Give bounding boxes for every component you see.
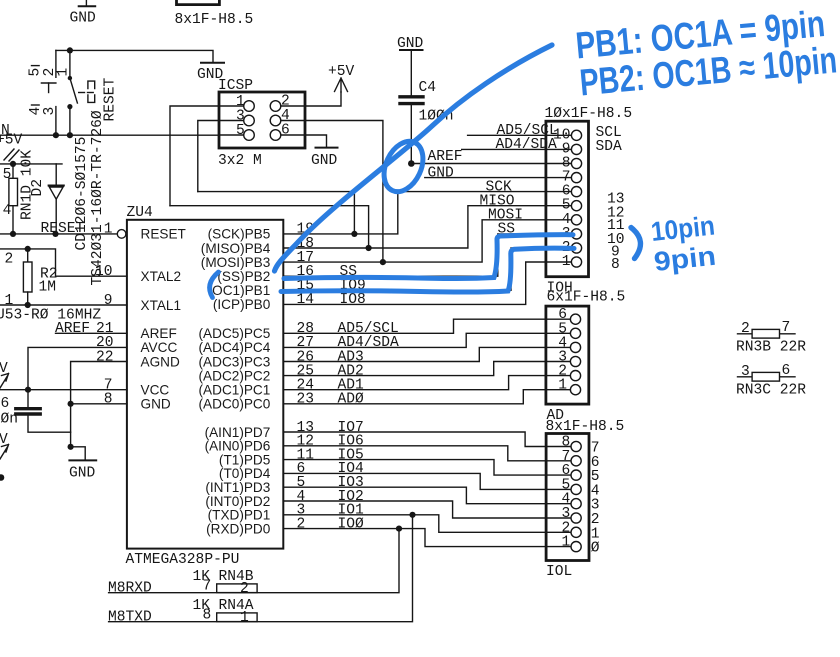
wire M8TXD net <box>109 515 413 622</box>
wire SDA to header pin9 <box>462 148 546 150</box>
svg-text:14: 14 <box>297 292 315 308</box>
wire SCK net <box>198 192 546 234</box>
svg-text:6: 6 <box>281 122 290 138</box>
junction switch top <box>67 47 73 53</box>
svg-text:(INT1)PD3: (INT1)PD3 <box>205 480 270 495</box>
svg-text:(TXD)PD1: (TXD)PD1 <box>208 508 271 523</box>
svg-text:IOØ: IOØ <box>338 516 365 532</box>
svg-text:1: 1 <box>55 68 71 77</box>
svg-text:TS42Ø31-16ØR-TR-726Ø: TS42Ø31-16ØR-TR-726Ø <box>90 110 106 285</box>
svg-text:(OC1)PB1: (OC1)PB1 <box>208 283 271 298</box>
wire XTAL2 pin10 <box>0 249 127 276</box>
svg-text:1: 1 <box>104 222 113 238</box>
wire AD3 net <box>283 347 546 361</box>
svg-text:(ADC5)PC5: (ADC5)PC5 <box>199 326 271 341</box>
svg-text:RESET: RESET <box>141 227 186 242</box>
svg-text:IOL: IOL <box>546 564 572 580</box>
svg-text:AREF: AREF <box>141 326 177 341</box>
svg-text:AREF: AREF <box>428 149 463 165</box>
wire SS net <box>283 234 546 276</box>
svg-text:ATMEGA328P-PU: ATMEGA328P-PU <box>126 552 240 568</box>
wire AD2 net <box>283 362 546 376</box>
diode D2 <box>49 164 64 234</box>
wire AD0 net <box>283 390 546 404</box>
svg-text:GND: GND <box>70 11 97 27</box>
svg-text:GND: GND <box>428 165 455 181</box>
wire ICSP pin1 MISO left-down <box>170 106 219 206</box>
svg-text:ADØ: ADØ <box>338 392 365 408</box>
wire ICSP pin6 to GND <box>305 135 327 147</box>
wire SCL to header pin10 <box>468 134 546 136</box>
svg-text:(MISO)PB4: (MISO)PB4 <box>201 241 271 256</box>
wire IO3 net <box>283 487 546 504</box>
wire GND to header pin7 <box>425 177 546 179</box>
svg-text:(ADC0)PC0: (ADC0)PC0 <box>199 397 271 412</box>
ground top-left <box>79 0 96 6</box>
svg-text:1: 1 <box>562 254 571 270</box>
svg-text:10: 10 <box>95 264 113 280</box>
pin numbers IOH <box>553 127 571 270</box>
svg-text:2: 2 <box>5 252 14 268</box>
svg-text:(SCK)PB5: (SCK)PB5 <box>208 227 271 242</box>
header 8x1F corner (cut at top) <box>177 0 220 5</box>
wire PB1/IO9 net <box>283 248 546 290</box>
supply +5V arrow fragment (cut) <box>0 374 9 389</box>
IC left pin numbers <box>95 222 114 408</box>
annotation blue wire PB2 to pin3 <box>284 235 573 279</box>
wire RESET row y=233.9 <box>0 233 117 235</box>
resistor RN3C 22R <box>738 372 796 381</box>
svg-text:8: 8 <box>611 257 620 273</box>
svg-text:2: 2 <box>240 581 249 597</box>
wire IO6 net <box>283 446 546 461</box>
supply +5V arrow at ICSP <box>335 78 348 92</box>
labels arduino pins 7..0 <box>591 441 600 557</box>
wire IO2 net <box>283 501 546 518</box>
svg-text:6: 6 <box>1 396 10 412</box>
wire IO0 net <box>283 529 546 547</box>
svg-text:6x1F-H8.5: 6x1F-H8.5 <box>547 290 626 306</box>
annotation blue wire PB1 to pin2 <box>281 248 574 292</box>
svg-text:AREF: AREF <box>55 321 90 337</box>
annotation blue swoosh <box>275 45 553 271</box>
svg-text:(AIN1)PD7: (AIN1)PD7 <box>205 425 271 440</box>
svg-text:(SS)PB2: (SS)PB2 <box>217 269 270 284</box>
wire AD4 net <box>283 333 546 347</box>
wire VCC pin7 <box>0 389 127 391</box>
capacitor C6 100n (cut) <box>16 390 71 433</box>
svg-text:1: 1 <box>562 535 571 551</box>
wire XTAL1 pin9 <box>0 304 127 306</box>
svg-text:AGND: AGND <box>141 354 180 369</box>
svg-text:1: 1 <box>558 378 567 394</box>
svg-text:1M: 1M <box>39 280 57 296</box>
ground bottom-left <box>69 459 96 461</box>
svg-text:V: V <box>0 432 8 448</box>
svg-text:5: 5 <box>3 167 12 183</box>
wire IO1 net <box>283 515 546 533</box>
wire AREF to header pin8 <box>411 163 546 165</box>
IC left pin names <box>141 227 186 412</box>
svg-text:M8TXD: M8TXD <box>108 610 152 626</box>
wire AGND pin22 <box>71 362 127 447</box>
junction IO0/RXD <box>396 526 402 532</box>
ground at switch <box>201 62 224 64</box>
svg-text:5: 5 <box>236 123 245 139</box>
svg-text:(T0)PD4: (T0)PD4 <box>219 466 271 481</box>
svg-text:(MOSI)PB3: (MOSI)PB3 <box>201 255 271 270</box>
svg-text:22: 22 <box>96 349 114 365</box>
svg-text:(ADC2)PC2: (ADC2)PC2 <box>199 368 271 383</box>
svg-text:D2: D2 <box>30 179 46 197</box>
supply +5V arrow fragment 2 (cut) <box>0 445 9 460</box>
svg-text:(ADC1)PC1: (ADC1)PC1 <box>199 383 271 398</box>
svg-text:(RXD)PD0: (RXD)PD0 <box>206 521 271 536</box>
IC right pin numbers <box>297 222 315 533</box>
svg-text:XTAL1: XTAL1 <box>141 298 182 313</box>
svg-text:ZU4: ZU4 <box>127 205 154 221</box>
wire IO5 net <box>283 460 546 476</box>
switch S1 RESET <box>32 50 95 135</box>
svg-text:V: V <box>0 361 8 377</box>
svg-text:AVCC: AVCC <box>141 340 178 355</box>
svg-text:8x1F-H8.5: 8x1F-H8.5 <box>175 12 254 28</box>
svg-text:4: 4 <box>281 108 290 124</box>
svg-text:M8RXD: M8RXD <box>108 581 152 597</box>
resistor RN4A 1K <box>217 613 257 622</box>
wire IO7 net <box>283 432 546 447</box>
svg-text:GND: GND <box>141 397 171 412</box>
svg-text:3: 3 <box>741 364 750 380</box>
svg-text:(AIN0)PD6: (AIN0)PD6 <box>205 439 271 454</box>
svg-text:(ICP)PB0: (ICP)PB0 <box>213 297 271 312</box>
svg-text:7: 7 <box>203 579 212 595</box>
resistor RN1D 10K <box>9 164 18 234</box>
svg-text:1Øx1F-H8.5: 1Øx1F-H8.5 <box>545 106 633 122</box>
wire ICSP pin2 to +5V <box>305 92 341 106</box>
wire AD1 net <box>283 376 546 390</box>
labels arduino pins 13..8 <box>607 192 625 273</box>
svg-text:AD4/SDA: AD4/SDA <box>496 137 558 153</box>
junction IO1/TXD <box>409 512 415 518</box>
svg-text:RESET: RESET <box>41 221 85 237</box>
svg-text:+5V: +5V <box>328 64 355 80</box>
svg-text:IO8: IO8 <box>340 292 366 308</box>
svg-text:6: 6 <box>782 363 791 379</box>
wire IO4 net <box>283 473 546 489</box>
wire ICSP pin3 SCK left-down <box>198 121 219 192</box>
svg-text:GND: GND <box>69 466 96 482</box>
wire MOSI net <box>283 220 546 262</box>
svg-text:GND: GND <box>311 153 338 169</box>
svg-text:8: 8 <box>203 608 212 624</box>
wire M8RXD net <box>109 529 399 593</box>
svg-text:7: 7 <box>782 320 791 336</box>
pin numbers IOL <box>562 435 571 551</box>
svg-text:3: 3 <box>42 107 58 116</box>
capacitor C4 100n <box>400 97 423 164</box>
wire PB0/IO8 net <box>283 262 546 304</box>
resistor R2 1M <box>23 249 32 305</box>
svg-text:C4: C4 <box>419 80 437 96</box>
IC right pin names <box>199 227 271 537</box>
svg-text:8: 8 <box>104 392 113 408</box>
wire AVCC pin20 <box>28 347 127 389</box>
wire to ground symbol <box>71 447 86 460</box>
wire AD5 net <box>283 319 546 333</box>
svg-text:(ADC4)PC4: (ADC4)PC4 <box>199 340 271 355</box>
svg-text:4: 4 <box>3 203 12 219</box>
wire AREF pin21 <box>56 332 127 334</box>
annotation blue paren at PB2/PB1 <box>210 272 219 298</box>
pin numbers AD <box>558 307 567 394</box>
svg-text:3x2 M: 3x2 M <box>218 153 262 169</box>
annotation blue loop <box>376 135 430 198</box>
svg-text:(ADC3)PC3: (ADC3)PC3 <box>199 354 271 369</box>
svg-text:Ø: Ø <box>591 541 600 557</box>
svg-text:XTAL2: XTAL2 <box>141 269 182 284</box>
node at left edge (cut) <box>0 474 4 481</box>
svg-text:RN3C 22R: RN3C 22R <box>736 383 806 399</box>
ground at ICSP pin6 <box>316 147 338 149</box>
svg-text:RN3B 22R: RN3B 22R <box>736 340 806 356</box>
pin RESET bubble <box>117 230 126 239</box>
connector AD 6x1F <box>546 306 589 404</box>
svg-text:2: 2 <box>297 516 306 532</box>
svg-text:23: 23 <box>297 392 315 408</box>
resistor RN3B 22R <box>738 329 796 338</box>
svg-text:Øn: Øn <box>1 412 19 428</box>
svg-text:1: 1 <box>240 610 249 626</box>
junction AGND/GND to ground <box>68 444 74 450</box>
node AREF junction <box>408 160 415 167</box>
svg-text:(INT0)PD2: (INT0)PD2 <box>205 494 270 509</box>
wire +5V rail y=163.9 <box>0 163 62 165</box>
svg-text:9: 9 <box>104 293 113 309</box>
annotation blue paren right <box>631 228 640 259</box>
svg-text:(T1)PD5: (T1)PD5 <box>219 452 270 467</box>
wire MISO net <box>170 206 546 248</box>
svg-text:VCC: VCC <box>141 383 170 398</box>
wire GND pin8 <box>71 403 127 405</box>
wire RESET net y=135 <box>0 134 219 136</box>
resistor RN4B 1K <box>217 584 257 593</box>
connector IOL 8x1F <box>546 434 589 561</box>
svg-text:SDA: SDA <box>596 139 623 155</box>
svg-text:2: 2 <box>741 321 750 337</box>
wire switch top to GND <box>56 50 213 62</box>
wire ICSP pin4 MOSI right-down <box>305 121 383 263</box>
